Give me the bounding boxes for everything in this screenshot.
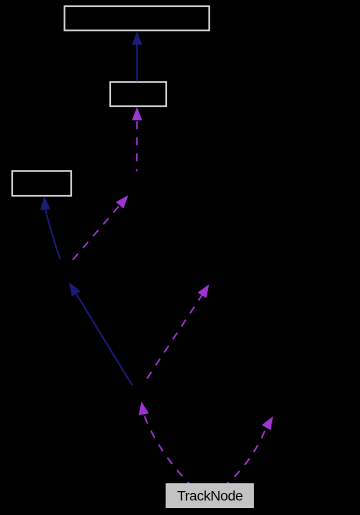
wire solid arrow A (mid box to top box)	[132, 32, 142, 82]
node box top (empty/dark label)	[65, 6, 210, 30]
wire dashed arrow B (label node to mid box)	[132, 107, 142, 171]
wire dashed arrow F	[147, 284, 209, 378]
node TrackNode	[166, 484, 253, 508]
svg-text:TrackNode: TrackNode	[177, 488, 243, 504]
wire dashed curve H (TrackNode up-right)	[226, 416, 273, 484]
wire solid arrow E	[69, 283, 132, 386]
wire dashed arrow C	[73, 195, 129, 260]
node box middle (empty/dark label)	[110, 82, 166, 106]
wire solid arrow D (to left box)	[40, 196, 60, 259]
wire dashed curve G (TrackNode up-left)	[139, 401, 190, 484]
node box left (empty/dark label)	[12, 171, 71, 196]
